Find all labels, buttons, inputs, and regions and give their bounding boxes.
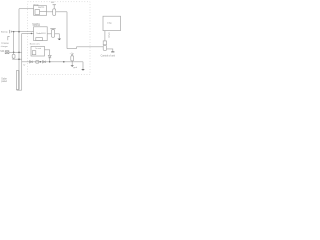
component K1 lower <box>103 45 106 50</box>
wire vertical bus V19 <box>18 9 20 71</box>
battery B1 short plate <box>10 31 12 33</box>
svg-text:panel: panel <box>1 81 7 83</box>
svg-text:Battery: Battery <box>1 31 9 34</box>
switch S1 cross <box>5 51 9 54</box>
R3 top bar <box>50 28 55 30</box>
wire control unit down <box>104 31 106 41</box>
wire V13 <box>13 32 15 53</box>
diode D0 triangle <box>30 61 33 63</box>
ground G2 <box>81 69 85 71</box>
diode D2 bar <box>48 57 51 59</box>
boost U3 box <box>31 46 45 56</box>
svg-text:Boost conv: Boost conv <box>30 43 40 46</box>
svg-text:12vdc: 12vdc <box>108 32 110 38</box>
wire W2 to NodeMCU <box>22 33 34 35</box>
node dot W1-V19 <box>18 31 20 33</box>
R3 top stub <box>52 28 54 31</box>
wire W3 <box>9 51 22 53</box>
wire solar bottom <box>17 88 22 91</box>
sensor U1 inner rect <box>35 10 40 15</box>
wire NodeMCU right <box>47 33 51 35</box>
wire sensor left to vertical bus <box>19 8 34 10</box>
sensor U1 pin line <box>40 11 47 13</box>
battery minus stub <box>8 37 10 41</box>
resistor R2 <box>12 54 15 58</box>
capacitor C1 circle <box>71 54 73 56</box>
node dot W4-V19 <box>18 58 20 60</box>
node dot W2 <box>31 33 32 34</box>
wire data jog bottom <box>67 48 77 50</box>
fuse F1 <box>36 60 39 63</box>
wire V21 <box>21 34 23 91</box>
node dot W5-C1 <box>63 61 65 63</box>
sensor U1 box <box>34 6 47 16</box>
diode D1 bar <box>45 61 47 63</box>
wire W5 drop <box>82 62 84 69</box>
wire sensor data to R1 <box>47 11 53 13</box>
wire D2 to W5 <box>49 58 51 62</box>
boost U3 inner rect <box>32 51 36 55</box>
node dot W3-V19 <box>18 52 20 54</box>
resistor R1 pull-up <box>53 9 56 16</box>
wire data to control unit <box>77 46 104 48</box>
dashed enclosure boundary <box>28 2 90 75</box>
solar panel PV1 <box>16 71 19 90</box>
node dot W5-D2 <box>49 61 51 63</box>
diode D1 triangle <box>43 61 46 63</box>
capacitor C1 body <box>71 56 74 61</box>
svg-text:5v: 5v <box>23 64 25 66</box>
power 3v3 bar <box>53 4 56 6</box>
svg-text:charger: charger <box>1 45 8 48</box>
wire R2 top lead <box>13 52 15 54</box>
battery B1 long plate <box>9 30 11 33</box>
wire R1 to node <box>56 11 67 13</box>
node dot W3-V13 <box>13 52 15 54</box>
node dot W1-V13 <box>13 31 15 33</box>
wire data vertical down <box>66 12 68 49</box>
ground G3 <box>71 65 74 66</box>
wire W5 rail <box>22 61 83 63</box>
control unit box <box>103 16 121 30</box>
wire boost out <box>45 50 50 56</box>
svg-text:Control of unit: Control of unit <box>101 55 116 58</box>
power 3v3 stub <box>53 5 55 9</box>
svg-text:5v out: 5v out <box>35 47 41 50</box>
wire R2 bottom lead <box>13 58 15 59</box>
NodeMCU U2 box <box>34 27 48 41</box>
wire data jog riser <box>76 47 78 49</box>
wire W4 <box>12 58 22 60</box>
wire C1 ground stub <box>71 62 73 65</box>
wire K1 to ground <box>107 49 113 52</box>
node dot F1-D1 <box>40 61 42 63</box>
svg-text:TP4056: TP4056 <box>1 43 9 45</box>
switch S1 box <box>5 51 9 54</box>
solar panel PV1 dark edge <box>18 71 20 90</box>
wire R3 to ground <box>55 34 60 39</box>
wire W1 battery to NodeMCU <box>11 31 33 33</box>
resistor R3 <box>52 30 55 38</box>
diode D2 triangle <box>48 55 51 57</box>
svg-text:NodeMCU: NodeMCU <box>36 33 46 35</box>
ground G4 <box>58 39 62 41</box>
diode D0 bar <box>31 61 33 63</box>
NodeMCU U2 usb rect <box>36 38 43 41</box>
component K1 upper <box>103 41 106 45</box>
capacitor C1 lead <box>71 60 73 63</box>
svg-text:DHT11: DHT11 <box>38 7 45 9</box>
ground G1 <box>111 51 114 54</box>
